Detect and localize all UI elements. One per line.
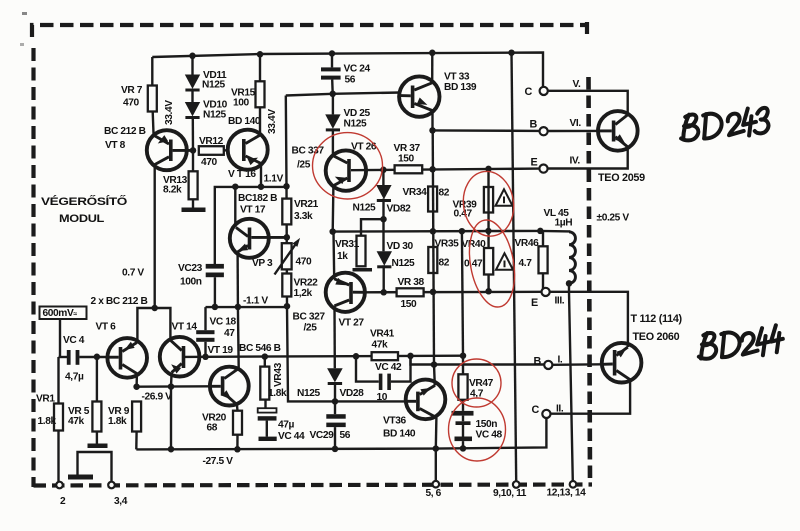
pin 12,13,14 xyxy=(570,481,577,488)
label 600mV box xyxy=(40,307,87,320)
node E row / VR39 top xyxy=(485,166,492,173)
node bottom rail / VC48 xyxy=(460,445,467,452)
svg-text:47k: 47k xyxy=(68,416,85,427)
wire VR9 to bottom rail xyxy=(135,432,138,450)
pin 3,4 xyxy=(108,482,115,489)
capacitor VC23 xyxy=(206,264,224,269)
svg-text:VT 19: VT 19 xyxy=(208,345,234,356)
resistor VR9 xyxy=(132,402,141,432)
svg-text:N125: N125 xyxy=(203,110,226,121)
resistor VR7 xyxy=(151,57,153,86)
handwritten BD244 xyxy=(697,325,784,360)
wire VT8 emitter down to VT6/VT14 bracket xyxy=(153,165,155,308)
wire top supply rail xyxy=(152,53,543,87)
pin 5,6 xyxy=(435,449,437,481)
node row186 / VT17 base xyxy=(232,183,239,190)
termination bar below VR31 xyxy=(353,268,373,272)
svg-text:N125: N125 xyxy=(202,80,225,91)
wire -1.1V row xyxy=(206,306,288,308)
svg-text:56: 56 xyxy=(340,430,351,441)
svg-text:BD 140: BD 140 xyxy=(383,429,416,440)
svg-text:N125: N125 xyxy=(297,388,320,399)
svg-text:VR1: VR1 xyxy=(36,394,55,405)
wire VD10 to VT8 base node xyxy=(192,119,195,151)
svg-text:VD82: VD82 xyxy=(387,204,412,215)
svg-text:BD 139: BD 139 xyxy=(444,82,477,93)
svg-text:VR47: VR47 xyxy=(469,378,494,389)
svg-text:0.47: 0.47 xyxy=(454,209,473,220)
diode VD11 xyxy=(191,56,193,75)
svg-text:VD28: VD28 xyxy=(340,388,365,399)
svg-text:5, 6: 5, 6 xyxy=(426,488,442,499)
wire coil bottom to pin 12,13,14 xyxy=(569,283,573,481)
wire VT36 collector to B lower row xyxy=(433,365,436,386)
wire VR7 to VT8 collector xyxy=(151,112,154,137)
svg-text:VC 48: VC 48 xyxy=(476,430,503,441)
wire VT33 collector to top rail xyxy=(431,53,433,83)
svg-text:4,7µ: 4,7µ xyxy=(65,372,84,383)
red circle around VR40 xyxy=(463,216,521,310)
node rowA / VR43 xyxy=(262,353,269,360)
node VT17 collector / VR21-VP3 xyxy=(284,234,291,241)
svg-text:470: 470 xyxy=(296,257,313,268)
wire VR39-VR40 column xyxy=(487,169,490,291)
node E row / VR34 column xyxy=(429,166,436,173)
node rowA / VR41-VC42 left xyxy=(353,353,360,360)
svg-text:/25: /25 xyxy=(304,323,318,334)
module dashed border left xyxy=(31,48,35,487)
capacitor VC44 (electrolytic) xyxy=(264,400,266,409)
wire VT16 emitter row to VR21 column xyxy=(215,187,287,265)
node -26.9V row / VR9 xyxy=(133,383,140,390)
node VT6 base / VR5 xyxy=(94,354,101,361)
svg-text:150n: 150n xyxy=(476,419,498,430)
node top rail / VC24 column xyxy=(329,50,336,57)
svg-text:VD 30: VD 30 xyxy=(387,241,414,252)
svg-text:82: 82 xyxy=(439,188,450,199)
wire 600mV box to input node xyxy=(59,319,61,357)
node row401 / VD28 / VC29 xyxy=(332,398,339,405)
svg-text:VR 38: VR 38 xyxy=(398,277,425,288)
wire node219 to VR31 xyxy=(361,219,384,236)
svg-text:VT 17: VT 17 xyxy=(240,205,266,216)
resistor VR15 xyxy=(259,54,261,81)
svg-text:III.: III. xyxy=(555,296,565,307)
svg-text:1,2k: 1,2k xyxy=(294,288,313,299)
svg-text:VT 27: VT 27 xyxy=(339,318,365,329)
svg-text:100n: 100n xyxy=(180,277,202,288)
node bottom rail / VC29 xyxy=(332,446,339,453)
svg-text:470: 470 xyxy=(201,157,218,168)
resistor VR31 xyxy=(357,236,366,267)
terminal E (IV.) xyxy=(539,165,547,173)
wire pin 3,4 to ground xyxy=(78,452,112,482)
svg-text:82: 82 xyxy=(439,258,450,269)
svg-text:B: B xyxy=(534,356,542,368)
svg-text:1µH: 1µH xyxy=(555,218,573,229)
svg-text:TEO 2059: TEO 2059 xyxy=(598,172,645,184)
wire VT6 emitter to -26.9V row xyxy=(135,374,138,387)
svg-text:VC 44: VC 44 xyxy=(278,431,305,442)
svg-text:E: E xyxy=(531,157,538,169)
wire B row (VT33 emitter to terminal B) xyxy=(433,129,540,132)
node -1.1V row / VR22 bottom xyxy=(284,303,291,310)
svg-text:470: 470 xyxy=(123,98,140,109)
svg-text:1.8k: 1.8k xyxy=(268,388,287,399)
svg-text:8.2k: 8.2k xyxy=(163,185,182,196)
resistor VR13 xyxy=(192,150,194,171)
node rowA / VC18 xyxy=(202,354,209,361)
diode VD28 xyxy=(327,368,343,382)
node row231 / VR46 top xyxy=(537,228,544,235)
pin 9,10,11 column (output rail) xyxy=(512,53,517,482)
svg-text:TEO 2060: TEO 2060 xyxy=(633,331,680,343)
svg-text:BD 140: BD 140 xyxy=(228,116,261,127)
svg-text:BC 327: BC 327 xyxy=(293,312,326,323)
svg-text:BC 337: BC 337 xyxy=(292,146,325,157)
capacitor VC48 xyxy=(462,400,464,411)
wire VR47 column from row231 xyxy=(462,231,463,356)
wire bottom rail -27.5V xyxy=(136,418,546,449)
svg-text:600mV≈: 600mV≈ xyxy=(43,308,78,319)
svg-text:V.: V. xyxy=(573,79,581,90)
wire VR34/VR35 output column (VT33 emitter to VT36 collector) xyxy=(433,130,434,364)
svg-text:VR34: VR34 xyxy=(403,187,428,198)
node E row / VD82 xyxy=(380,167,387,174)
node rowA / VR47 top xyxy=(460,352,467,359)
svg-text:VT36: VT36 xyxy=(383,416,406,427)
resistor VR12 xyxy=(199,146,224,155)
node -1.1V row / VC23 xyxy=(212,304,219,311)
wire VT19 collector to -1.1V row xyxy=(237,307,240,368)
wire E row right (terminal E to TEO2059 emitter) xyxy=(548,147,628,169)
capacitor VC4 xyxy=(67,350,71,365)
svg-text:4.7: 4.7 xyxy=(519,258,533,269)
svg-text:B: B xyxy=(530,119,538,131)
svg-text:VR31: VR31 xyxy=(335,239,360,250)
wire VT36 emitter to bottom rail xyxy=(435,418,438,449)
svg-text:VR41: VR41 xyxy=(370,329,395,340)
svg-text:2 x BC 212 B: 2 x BC 212 B xyxy=(91,296,148,307)
node B row / VT36 collector xyxy=(431,361,438,368)
wire terminal C II to TEO2060 emitter xyxy=(551,380,631,414)
svg-text:VC 18: VC 18 xyxy=(210,317,237,328)
svg-text:VT 6: VT 6 xyxy=(96,322,117,333)
pin 2 xyxy=(56,482,63,489)
wire VT16 emitter down to row xyxy=(260,163,262,186)
svg-text:3,4: 3,4 xyxy=(114,496,128,507)
node top rail / VR15 column xyxy=(257,51,264,58)
node top rail / VD11 column xyxy=(189,53,196,60)
resistor VR22 xyxy=(282,274,291,297)
node bottom rail / VT14 column xyxy=(168,446,175,453)
potentiometer VP3 xyxy=(282,243,292,269)
svg-text:VR43: VR43 xyxy=(273,362,284,387)
svg-text:BC182 B: BC182 B xyxy=(238,193,277,204)
ground below VR5 xyxy=(88,444,108,449)
wire VT17 emitter to -1.1V row xyxy=(236,252,239,307)
terminal C (II.) xyxy=(542,410,550,418)
wire terminal B to TEO2059 base xyxy=(548,130,599,133)
wire C terminal to TEO2059 collector xyxy=(548,91,628,115)
svg-text:VR40: VR40 xyxy=(462,239,487,250)
svg-text:BC 212 B: BC 212 B xyxy=(104,126,146,137)
node rowA / VR41-VC42 right xyxy=(407,353,414,360)
node bottom rail / VR20 xyxy=(234,446,241,453)
svg-text:VT 14: VT 14 xyxy=(172,322,198,333)
svg-text:150: 150 xyxy=(401,299,418,310)
wire terminal B to TEO2060 base xyxy=(552,363,602,366)
svg-text:VR22: VR22 xyxy=(294,278,319,289)
capacitor VC18 xyxy=(204,307,206,330)
wire terminal E III to TEO2060 collector xyxy=(550,292,628,347)
svg-text:9,10, 11: 9,10, 11 xyxy=(493,488,527,499)
svg-text:3.3k: 3.3k xyxy=(294,211,313,222)
handwritten BD243 xyxy=(679,107,770,142)
terminal E (III.) xyxy=(542,288,550,296)
svg-text:E: E xyxy=(531,297,538,309)
red circle around VR39 xyxy=(459,168,518,239)
svg-text:IV.: IV. xyxy=(570,156,581,167)
svg-text:VC 42: VC 42 xyxy=(375,362,402,373)
svg-text:±0.25 V: ±0.25 V xyxy=(597,213,630,224)
node top rail / output column xyxy=(508,49,515,56)
svg-text:VP 3: VP 3 xyxy=(252,258,273,269)
capacitor VC42 xyxy=(356,356,411,382)
wire E III row (VT27 base row) xyxy=(364,291,541,294)
svg-text:T 112 (114): T 112 (114) xyxy=(631,313,683,325)
resistor VR1 xyxy=(57,357,59,404)
diode VD30 xyxy=(382,219,384,251)
red circle around VC48 xyxy=(449,398,506,461)
svg-text:1.8k: 1.8k xyxy=(38,416,57,427)
resistor VR43 xyxy=(264,357,266,367)
resistor VR38 xyxy=(397,288,424,296)
svg-text:N125: N125 xyxy=(392,258,415,269)
overload triangle at VR40 xyxy=(496,253,513,270)
wire VD11 to VD10 xyxy=(191,91,193,102)
diode VD10 xyxy=(185,102,200,116)
node row231 / VT26-VT27 column xyxy=(329,228,336,235)
wire VT27 collector up to row231 xyxy=(332,232,335,279)
node row292 / VR35 bottom xyxy=(430,289,437,296)
node B row / output column xyxy=(429,127,436,134)
svg-text:56: 56 xyxy=(345,75,356,86)
svg-text:-26.9 V: -26.9 V xyxy=(142,392,173,403)
terminal C (V.) xyxy=(540,87,548,95)
wire VD30 to VT27 base row xyxy=(383,265,385,292)
wire VR21-VP3-VR22 column (row94 down to row401) xyxy=(286,96,407,402)
svg-text:47µ: 47µ xyxy=(278,420,295,431)
node row94 / VC24-VD25 xyxy=(329,91,336,98)
wire row231 rail xyxy=(333,231,569,233)
wire input node to VC4 xyxy=(59,356,68,358)
diode VD82 xyxy=(382,170,384,185)
wire main signal row (VT14 base row to VR47 column) xyxy=(184,356,463,357)
svg-text:VC29: VC29 xyxy=(310,430,335,441)
module dashed border top-right corner hook xyxy=(585,22,589,34)
wire VR15 to VT16 collector xyxy=(259,107,261,135)
capacitor VC24 xyxy=(331,54,333,68)
svg-text:VI.: VI. xyxy=(570,118,582,129)
svg-text:2: 2 xyxy=(60,496,66,507)
node row231 / VR47 column xyxy=(459,228,466,235)
svg-text:1k: 1k xyxy=(337,251,348,262)
svg-text:0.7 V: 0.7 V xyxy=(122,268,144,279)
wire VT17 base from row186 xyxy=(234,187,236,228)
svg-text:33.4V: 33.4V xyxy=(164,100,175,125)
node row231 / VR39-VR40 xyxy=(485,228,492,235)
wire VT14 emitter column to bottom rail xyxy=(170,373,173,387)
svg-text:N125: N125 xyxy=(353,203,376,214)
svg-text:33.4V: 33.4V xyxy=(267,109,278,134)
svg-text:VR21: VR21 xyxy=(294,199,319,210)
node -26.9V row / VT14 emitter xyxy=(168,383,175,390)
svg-text:VR12: VR12 xyxy=(199,136,224,147)
module dashed border right xyxy=(589,77,591,484)
resistor VR5 xyxy=(96,357,98,402)
wire VT8 emitter bracket to VT6/VT14 collectors xyxy=(137,308,170,343)
wire VC23 to -1.1V row xyxy=(214,277,216,307)
wire B lower row xyxy=(411,356,545,365)
node VT8 base / VR12 / VR13 xyxy=(190,147,197,154)
svg-text:BC 546 B: BC 546 B xyxy=(239,343,281,354)
node -1.1V row / VT19 collector xyxy=(235,304,242,311)
svg-text:C: C xyxy=(525,86,533,98)
node bottom rail / VT36 emitter xyxy=(433,445,440,452)
svg-text:VC23: VC23 xyxy=(178,263,203,274)
node row292 / VR40 bottom xyxy=(485,288,492,295)
capacitor VC29 xyxy=(334,401,336,414)
resistor VR20 xyxy=(236,404,239,410)
node row186 / VR21 top xyxy=(283,183,290,190)
terminal B (I.) xyxy=(544,361,552,369)
module dashed border bottom xyxy=(34,485,593,486)
red circle around VT26 xyxy=(313,133,383,199)
node 219 (VD82/VR31/VD30) xyxy=(380,216,387,223)
wire VT27 emitter down to VD28 xyxy=(333,306,336,368)
svg-text:47: 47 xyxy=(224,328,235,339)
wire E row left (VT26 base to terminal E) xyxy=(351,169,539,171)
svg-text:C: C xyxy=(532,404,540,416)
svg-text:MODUL: MODUL xyxy=(59,213,105,225)
svg-text:12,13, 14: 12,13, 14 xyxy=(547,488,587,499)
resistor VR37 xyxy=(395,165,423,173)
svg-text:-1.1 V: -1.1 V xyxy=(243,296,268,307)
ground symbol near pin 3,4 xyxy=(68,475,93,480)
node bracket / VT8 emitter xyxy=(151,305,158,312)
wire VD28 to row401 xyxy=(334,385,336,401)
resistor VR21 xyxy=(282,199,291,225)
svg-text:VR46: VR46 xyxy=(515,238,540,249)
wire VT26 emitter down to row231 xyxy=(332,186,335,232)
diode VD25 xyxy=(332,94,334,115)
wire -26.9V row xyxy=(137,385,211,388)
scan speck top-left xyxy=(22,12,27,15)
module dashed border top xyxy=(32,25,587,37)
svg-text:0.47: 0.47 xyxy=(464,259,483,270)
node coil bottom xyxy=(566,280,573,287)
node top rail / VT33 collector xyxy=(429,50,436,57)
node row186 / VT16 emitter xyxy=(258,183,265,190)
svg-text:VC 24: VC 24 xyxy=(344,64,371,75)
svg-text:-27.5 V: -27.5 V xyxy=(203,456,234,467)
wire row94 (VT33 base row) xyxy=(286,93,401,96)
svg-text:N125: N125 xyxy=(344,119,367,130)
svg-text:10: 10 xyxy=(377,392,388,403)
red circle around VR47 xyxy=(452,359,501,407)
svg-text:VR 37: VR 37 xyxy=(394,143,421,154)
svg-text:VD 25: VD 25 xyxy=(344,108,371,119)
svg-text:VC 4: VC 4 xyxy=(63,335,85,346)
wire VT33 emitter to B row xyxy=(431,111,433,131)
terminal B (VI.) xyxy=(540,127,548,135)
resistor VR47 xyxy=(462,356,464,375)
svg-text:100: 100 xyxy=(233,98,250,109)
svg-text:47k: 47k xyxy=(372,340,389,351)
svg-text:68: 68 xyxy=(207,423,218,434)
overload triangle at VR39 xyxy=(496,189,513,206)
svg-text:VT 8: VT 8 xyxy=(105,140,126,151)
wire VD82 to node219 xyxy=(382,199,384,220)
wire VC4 to VT6 base xyxy=(79,356,109,358)
svg-text:VT 33: VT 33 xyxy=(444,72,470,83)
svg-text:/25: /25 xyxy=(297,160,311,171)
svg-text:VR 7: VR 7 xyxy=(121,85,143,96)
svg-text:150: 150 xyxy=(398,154,415,165)
wire VR20 to bottom rail xyxy=(236,435,239,450)
wire VR12 to VT16 base xyxy=(224,149,229,152)
node row292 / VD30 xyxy=(380,289,387,296)
svg-text:1.1V: 1.1V xyxy=(264,174,284,185)
wire VD25 to VT26 collector xyxy=(332,130,334,156)
ground below VR13 xyxy=(192,199,194,208)
svg-text:VÉGERŐSÍTŐ: VÉGERŐSÍTŐ xyxy=(41,195,127,208)
svg-text:1.8k: 1.8k xyxy=(108,416,127,427)
node row231 / VR34-VR35 xyxy=(430,228,437,235)
